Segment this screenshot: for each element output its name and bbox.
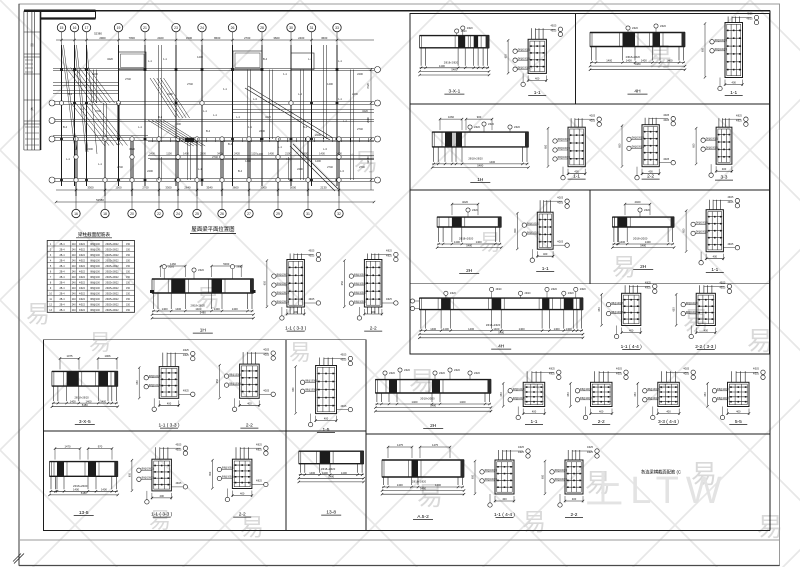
svg-text:2Φ20: 2Φ20 [660,25,667,28]
svg-text:650: 650 [542,474,545,479]
corner cut mark bottom-left [13,554,24,564]
svg-text:Φ8@100(2): Φ8@100(2) [354,300,366,303]
svg-text:7020: 7020 [366,83,370,89]
svg-text:易: 易 [89,330,111,355]
svg-text:2Φ25+2Φ22: 2Φ25+2Φ22 [105,293,119,296]
svg-text:3420: 3420 [129,147,135,151]
svg-text:1120: 1120 [251,152,257,156]
svg-text:5000: 5000 [223,262,229,266]
svg-text:2Φ25+2Φ22: 2Φ25+2Φ22 [105,254,119,257]
svg-text:各连梁横截面配筋 (C: 各连梁横截面配筋 (C [641,469,681,476]
svg-text:970: 970 [98,444,103,448]
svg-text:2Φ18+2Φ20: 2Φ18+2Φ20 [74,396,89,400]
svg-text:13-5: 13-5 [79,510,89,516]
svg-text:2Φ18+2Φ20: 2Φ18+2Φ20 [633,237,648,241]
svg-text:650: 650 [341,281,344,286]
svg-text:4Φ25: 4Φ25 [549,373,556,376]
svg-text:2400: 2400 [352,92,358,96]
svg-text:2Φ20: 2Φ20 [568,292,575,295]
svg-text:4Φ22: 4Φ22 [79,243,86,246]
svg-text:4Φ25: 4Φ25 [256,448,263,451]
svg-text:Φ8@100: Φ8@100 [90,243,100,246]
svg-text:2740: 2740 [117,165,123,169]
svg-text:19: 19 [117,26,121,30]
svg-text:梁柱截面配筋表: 梁柱截面配筋表 [78,231,111,238]
svg-text:5480: 5480 [498,330,504,334]
svg-text:L-1: L-1 [236,115,240,119]
svg-text:4Φ25: 4Φ25 [663,114,670,117]
svg-text:1-1: 1-1 [542,266,549,272]
svg-text:2Φ18+2Φ20: 2Φ18+2Φ20 [486,323,501,327]
svg-text:2Φ20: 2Φ20 [198,269,205,272]
svg-text:Φ8@100(2): Φ8@100(2) [354,282,366,285]
svg-text:4Φ25: 4Φ25 [557,201,564,204]
svg-text:31: 31 [310,26,314,30]
svg-text:5480: 5480 [477,164,483,168]
svg-text:4Φ22: 4Φ22 [79,254,86,257]
floor plan stair diagonals [66,68,338,192]
svg-text:1-1: 1-1 [350,152,354,156]
svg-text:Φ8@100(2): Φ8@100(2) [632,146,644,149]
svg-text:2B-4: 2B-4 [59,304,65,307]
svg-text:2Φ20: 2Φ20 [514,126,521,129]
svg-text:400: 400 [713,255,718,259]
svg-text:4Φ22: 4Φ22 [79,287,86,290]
svg-text:4Φ25: 4Φ25 [557,196,564,199]
svg-text:1-1: 1-1 [163,57,167,61]
svg-text:1-1: 1-1 [338,97,342,101]
svg-text:2Φ20: 2Φ20 [237,266,244,269]
svg-text:5-5: 5-5 [735,419,742,425]
svg-text:26: 26 [220,212,224,216]
svg-text:B-4: B-4 [303,125,308,129]
svg-text:1400: 1400 [86,399,92,403]
svg-text:4Φ25: 4Φ25 [386,255,393,258]
svg-text:Φ8@100(2): Φ8@100(2) [715,39,727,42]
svg-text:2Φ18+2Φ20: 2Φ18+2Φ20 [321,467,336,471]
svg-text:Φ8@100(2): Φ8@100(2) [518,48,530,51]
svg-text:2130: 2130 [320,186,327,190]
svg-text:2Φ25+2Φ22: 2Φ25+2Φ22 [105,282,119,285]
svg-text:1H: 1H [200,328,207,334]
svg-text:1-1 ( 4-4 ): 1-1 ( 4-4 ) [494,512,515,518]
svg-text:1-1: 1-1 [711,267,718,273]
svg-text:易: 易 [522,509,546,536]
svg-text:400: 400 [736,410,741,414]
svg-text:3600: 3600 [273,36,280,40]
svg-text:400: 400 [532,410,537,414]
svg-text:1-1: 1-1 [730,90,737,96]
svg-text:4Φ25: 4Φ25 [263,390,270,393]
svg-text:Φ8@100(2): Φ8@100(2) [580,388,592,391]
svg-text:3600: 3600 [232,186,239,190]
svg-text:1400: 1400 [257,152,263,156]
svg-text:4Φ25: 4Φ25 [183,390,190,393]
svg-text:2Φ20: 2Φ20 [580,288,587,291]
svg-text:2Φ20: 2Φ20 [168,266,175,269]
svg-text:4Φ25: 4Φ25 [753,368,760,371]
svg-text:Φ8@100(2): Φ8@100(2) [229,373,241,376]
svg-text:4Φ25: 4Φ25 [386,250,393,253]
svg-text:150: 150 [126,304,131,307]
svg-text:31: 31 [306,212,310,216]
beam elevation 13-5 [48,444,119,516]
svg-text:3000: 3000 [260,186,267,190]
svg-text:Φ8@100(2): Φ8@100(2) [527,231,539,234]
svg-text:4Φ25: 4Φ25 [263,353,270,356]
right detail box frame [410,14,770,355]
svg-text:2400: 2400 [87,147,93,151]
svg-text:L-1: L-1 [343,119,347,123]
svg-text:2-2: 2-2 [571,512,578,518]
svg-text:4Φ25: 4Φ25 [727,196,734,199]
svg-text:3-3: 3-3 [721,175,728,181]
svg-text:16: 16 [74,212,78,216]
svg-text:4Φ25: 4Φ25 [340,405,347,408]
svg-text:Φ8@100(2): Φ8@100(2) [647,397,659,400]
svg-text:650: 650 [567,392,570,397]
svg-text:4Φ25: 4Φ25 [256,480,263,483]
svg-text:4Φ25: 4Φ25 [736,119,743,122]
svg-text:20: 20 [130,212,134,216]
svg-text:1400: 1400 [519,327,525,331]
svg-text:1400: 1400 [322,471,328,475]
svg-text:2Φ20: 2Φ20 [461,30,468,33]
svg-text:2400: 2400 [298,36,305,40]
svg-text:1400: 1400 [183,152,189,156]
svg-text:1475: 1475 [432,443,438,447]
svg-text:L-1: L-1 [213,113,217,117]
svg-text:4Φ25: 4Φ25 [589,119,596,122]
svg-text:1470: 1470 [65,444,71,448]
bottom left detail box frame [44,340,366,531]
svg-text:L-1: L-1 [203,109,207,113]
svg-text:4Φ25: 4Φ25 [727,201,734,204]
svg-text:3420: 3420 [217,152,223,156]
floor plan annotation texts [63,55,368,173]
svg-text:2H: 2H [430,423,437,429]
svg-text:4Φ25: 4Φ25 [747,18,754,21]
svg-text:易: 易 [612,254,636,281]
svg-text:Φ8@100: Φ8@100 [90,287,100,290]
svg-text:L-3: L-3 [340,169,344,173]
svg-text:240: 240 [72,243,77,246]
svg-text:Φ8@100(2): Φ8@100(2) [276,300,288,303]
svg-text:52580: 52580 [96,198,104,202]
svg-text:240: 240 [72,254,77,257]
svg-text:Φ8@100(2): Φ8@100(2) [558,156,570,159]
svg-text:4Φ25: 4Φ25 [663,158,670,161]
svg-text:Φ8@100(2): Φ8@100(2) [558,138,570,141]
svg-text:5480: 5480 [82,403,88,407]
svg-text:5480: 5480 [640,244,646,248]
svg-text:4Φ25: 4Φ25 [256,443,263,446]
svg-text:L-3: L-3 [116,142,120,146]
column section R4 1-1(4-4) [598,282,657,351]
svg-text:2Φ25+2Φ22: 2Φ25+2Φ22 [105,243,119,246]
svg-text:2Φ18+2Φ20: 2Φ18+2Φ20 [191,304,206,308]
svg-text:L-1: L-1 [66,157,70,161]
floor plan bottom axis circles [72,196,343,218]
svg-text:L-1: L-1 [233,157,237,161]
svg-text:30: 30 [289,26,293,30]
column section R1R 1-1 [702,13,759,96]
svg-text:240: 240 [72,248,77,251]
svg-text:150: 150 [126,309,131,312]
column section BM 1-1 [472,446,531,518]
svg-text:1100: 1100 [166,152,172,156]
svg-text:2400: 2400 [157,36,164,40]
svg-text:4Φ22: 4Φ22 [79,309,86,312]
svg-text:150: 150 [126,287,131,290]
svg-text:4Φ25: 4Φ25 [616,368,623,371]
svg-text:650: 650 [128,472,131,477]
svg-text:5480: 5480 [451,68,457,72]
svg-text:易: 易 [354,149,378,176]
svg-text:L-1: L-1 [278,145,282,149]
svg-text:2Φ25+2Φ22: 2Φ25+2Φ22 [105,298,119,301]
svg-text:2Φ25+2Φ22: 2Φ25+2Φ22 [105,287,119,290]
svg-text:400: 400 [732,81,737,85]
svg-text:4Φ25: 4Φ25 [645,282,652,285]
svg-text:400: 400 [371,310,376,314]
floor plan top dimension line [56,36,374,41]
svg-text:650: 650 [292,387,295,392]
column section B2H 2-2 [567,368,628,426]
svg-text:上LTW: 上LTW [585,470,728,512]
svg-text:Φ8@100(2): Φ8@100(2) [686,302,698,305]
svg-text:Φ8@100(2): Φ8@100(2) [706,137,718,140]
svg-text:150: 150 [126,248,131,251]
svg-text:3600: 3600 [321,36,328,40]
column section R3L 1-1 [514,196,570,272]
svg-text:13-8: 13-8 [326,510,336,516]
beam elevation 2H right [611,200,675,270]
svg-text:2H: 2H [466,268,473,274]
svg-text:3-X-5: 3-X-5 [79,419,91,425]
svg-text:16: 16 [73,26,77,30]
svg-text:1-1: 1-1 [283,72,287,76]
svg-text:4Φ22: 4Φ22 [79,282,86,285]
svg-text:650: 650 [500,392,503,397]
svg-text:B-4: B-4 [158,115,163,119]
svg-text:2-2 ( 3-3 ): 2-2 ( 3-3 ) [695,344,716,350]
svg-text:易: 易 [409,366,435,396]
svg-text:2B-4: 2B-4 [59,243,65,246]
svg-text:17: 17 [85,26,89,30]
svg-text:Φ8@100(2): Φ8@100(2) [527,222,539,225]
svg-text:Φ8@100(2): Φ8@100(2) [276,282,288,285]
svg-text:4Φ25: 4Φ25 [719,282,726,285]
svg-text:4Φ25: 4Φ25 [683,368,690,371]
svg-text:1400: 1400 [645,240,651,244]
svg-text:2Φ18+2Φ20: 2Φ18+2Φ20 [444,60,459,64]
svg-text:2900: 2900 [99,36,106,40]
svg-text:4Φ22: 4Φ22 [79,260,86,263]
svg-text:2Φ20: 2Φ20 [450,292,457,295]
svg-text:1400: 1400 [197,55,203,59]
svg-text:2400: 2400 [259,129,265,133]
svg-text:4Φ25: 4Φ25 [719,287,726,290]
svg-text:650: 650 [598,307,601,312]
svg-text:240: 240 [72,271,77,274]
svg-text:2640: 2640 [184,186,191,190]
svg-text:1-1: 1-1 [573,174,580,180]
svg-text:1800: 1800 [302,152,308,156]
svg-text:1400: 1400 [327,82,333,86]
svg-text:240: 240 [72,282,77,285]
svg-text:4Φ25: 4Φ25 [340,354,347,357]
svg-text:4Φ25: 4Φ25 [308,298,315,301]
beam elevation 4H r1 [589,24,686,95]
svg-text:2Φ20: 2Φ20 [525,292,532,295]
svg-text:650: 650 [263,281,266,286]
svg-text:Φ8@100(2): Φ8@100(2) [706,146,718,149]
svg-text:2740: 2740 [359,165,365,169]
svg-text:Φ8@100(2): Φ8@100(2) [305,380,317,383]
beam elevation row2 1H [431,115,530,183]
svg-text:3420: 3420 [362,109,368,113]
svg-text:650: 650 [634,392,637,397]
svg-text:2400: 2400 [147,169,153,173]
svg-text:Φ8@100(2): Φ8@100(2) [354,291,366,294]
svg-text:1400: 1400 [195,307,201,311]
svg-text:150: 150 [126,282,131,285]
svg-text:650: 650 [505,54,508,59]
svg-text:2Φ20: 2Φ20 [474,372,481,375]
svg-text:易: 易 [240,514,264,541]
svg-text:2Φ20: 2Φ20 [389,372,396,375]
svg-text:1400: 1400 [641,59,647,63]
svg-text:2Φ20: 2Φ20 [488,123,495,126]
svg-text:L-1: L-1 [148,59,152,63]
svg-text:650: 650 [693,143,696,148]
svg-text:2400: 2400 [357,72,363,76]
column section S-right-tall [341,250,398,332]
svg-text:150: 150 [126,265,131,268]
svg-text:B-4: B-4 [68,92,73,96]
floor plan corridor column ticks [117,70,368,181]
svg-text:150: 150 [126,293,131,296]
svg-text:2-2: 2-2 [647,174,654,180]
svg-text:4Φ22: 4Φ22 [79,265,86,268]
svg-text:1400: 1400 [162,307,168,311]
svg-text:1400: 1400 [341,471,347,475]
svg-text:650: 650 [545,144,548,149]
svg-text:Φ8@100(2): Φ8@100(2) [696,222,708,225]
floor plan top shafts [119,51,315,70]
svg-text:1400: 1400 [454,240,460,244]
svg-text:2Φ25+2Φ22: 2Φ25+2Φ22 [105,248,119,251]
svg-text:Φ8@100(2): Φ8@100(2) [222,467,234,470]
svg-text:1075: 1075 [67,354,73,358]
column section R1L 1-1 [505,25,563,97]
svg-text:Φ8@100(2): Φ8@100(2) [518,57,530,60]
column section A1 2-2 [216,348,275,428]
svg-text:150: 150 [126,254,131,257]
svg-text:650: 650 [704,392,707,397]
svg-text:2B-4: 2B-4 [59,271,65,274]
svg-text:2Φ25+2Φ22: 2Φ25+2Φ22 [105,265,119,268]
svg-text:Φ8@100(2): Φ8@100(2) [717,388,729,391]
svg-text:Φ8@100: Φ8@100 [90,260,100,263]
svg-text:4Φ22: 4Φ22 [79,298,86,301]
column section BM 2-2 [542,446,600,518]
svg-text:1400: 1400 [667,59,673,63]
svg-text:21: 21 [143,26,147,30]
svg-text:2Φ18+2Φ20: 2Φ18+2Φ20 [468,156,483,160]
svg-text:400: 400 [572,497,577,501]
svg-text:易: 易 [26,301,50,328]
svg-text:Φ8@100(2): Φ8@100(2) [141,477,153,480]
svg-text:L-1: L-1 [138,125,142,129]
svg-text:2Φ25+2Φ22: 2Φ25+2Φ22 [105,309,119,312]
svg-text:Φ8@100(2): Φ8@100(2) [513,397,525,400]
svg-text:L-1: L-1 [308,57,312,61]
svg-text:400: 400 [535,76,540,80]
floor plan left axis circles [49,100,55,183]
svg-text:4Φ25: 4Φ25 [587,446,594,449]
svg-text:4Φ25: 4Φ25 [616,373,623,376]
svg-text:4Φ25: 4Φ25 [663,119,670,122]
floor plan middle corridor texts [149,152,342,156]
svg-text:1400: 1400 [554,327,560,331]
svg-text:2Φ20: 2Φ20 [454,369,461,372]
svg-text:1400: 1400 [619,240,625,244]
svg-text:Φ8@100(2): Φ8@100(2) [611,311,623,314]
svg-text:4Φ25: 4Φ25 [736,114,743,117]
column section B2H 5-5 [704,368,765,426]
svg-text:15: 15 [60,26,64,30]
svg-text:2B-4: 2B-4 [59,260,65,263]
svg-text:5480: 5480 [420,487,426,491]
svg-text:1500: 1500 [115,186,122,190]
svg-text:29: 29 [276,212,280,216]
svg-text:4Φ25: 4Φ25 [557,240,564,243]
svg-text:4Φ25: 4Φ25 [308,250,315,253]
column section A2 1-1 [128,443,187,517]
svg-text:1-1: 1-1 [531,419,538,425]
svg-text:4020: 4020 [462,200,468,204]
svg-text:1400: 1400 [315,159,321,163]
svg-text:Φ8@100(2): Φ8@100(2) [229,382,241,385]
svg-text:32: 32 [337,212,341,216]
svg-text:27: 27 [247,212,251,216]
column section B2H 1-1 [500,368,561,426]
svg-text:A.5-2: A.5-2 [417,514,429,520]
svg-text:2740: 2740 [95,109,101,113]
svg-text:650: 650 [683,228,686,233]
svg-text:2400: 2400 [336,152,342,156]
svg-text:4Φ25: 4Φ25 [518,451,525,454]
svg-text:1400: 1400 [319,152,325,156]
svg-text:4Φ25: 4Φ25 [183,349,190,352]
svg-text:3300: 3300 [87,186,94,190]
svg-text:1400: 1400 [175,307,181,311]
svg-text:L-1: L-1 [198,167,202,171]
svg-text:3300: 3300 [186,36,193,40]
svg-text:400: 400 [324,417,329,421]
svg-text:400: 400 [722,167,727,171]
svg-text:150: 150 [126,271,131,274]
svg-text:240: 240 [72,309,77,312]
svg-text:Φ8@100(2): Φ8@100(2) [686,311,698,314]
svg-text:2Φ25+2Φ22: 2Φ25+2Φ22 [105,271,119,274]
svg-text:4Φ25: 4Φ25 [386,298,393,301]
svg-text:1-1 ( 3-3 ): 1-1 ( 3-3 ) [285,326,306,332]
svg-text:2400: 2400 [149,152,155,156]
svg-text:4Φ25: 4Φ25 [518,446,525,449]
